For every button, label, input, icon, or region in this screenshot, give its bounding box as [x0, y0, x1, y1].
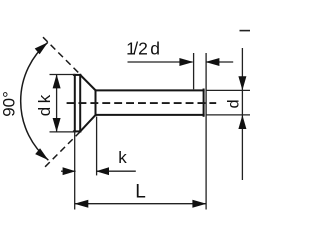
d arrow up [238, 115, 246, 129]
k ext line right [96, 117, 98, 176]
wire shank top [96, 89, 204, 91]
half-d dim line right tail [206, 61, 233, 63]
L arrow left-pointing [74, 200, 88, 208]
90 degree arc [21, 42, 49, 160]
wire cone bottom [80, 115, 95, 131]
d ext line top [207, 89, 251, 91]
dk arrow up [53, 74, 61, 88]
half-d dim line left tail [128, 61, 193, 63]
d dimension right [207, 48, 251, 180]
k dim line right tail [96, 170, 136, 172]
dk dim line [56, 75, 58, 132]
arc arrow top [35, 42, 48, 54]
half-d arrow left-pointing [205, 58, 219, 66]
wire shank right end [203, 90, 205, 116]
k dim line left tail [61, 170, 76, 172]
d ext line bottom [207, 114, 251, 116]
svg-text:d: d [226, 99, 243, 108]
k arrow left-pointing [96, 167, 109, 175]
construction dashed line bottom (cone extended) [42, 132, 80, 170]
L arrow right-pointing [192, 200, 206, 208]
wire cone-shank junction [95, 90, 97, 115]
d dim line [241, 48, 243, 180]
svg-text:90°: 90° [0, 91, 19, 117]
1/2 d dimension [128, 53, 234, 210]
dk ext line bottom [50, 131, 76, 133]
k dimension [61, 117, 136, 210]
svg-text:k: k [118, 148, 127, 167]
construction dashed line top (cone extended) [43, 37, 80, 74]
k arrow right-pointing [63, 167, 76, 175]
wire head face [74, 75, 76, 131]
dk arrow down [53, 118, 61, 132]
wire cone top [80, 75, 95, 90]
d arrow down [238, 76, 246, 90]
centerline [67, 102, 217, 104]
arc arrow bottom [35, 148, 48, 160]
L dim line [75, 203, 207, 205]
wire head top edge [74, 74, 80, 76]
wire top-right stray line [240, 30, 251, 32]
dk ext line top [50, 74, 76, 76]
screw outline [74, 75, 204, 131]
dk dimension [50, 75, 76, 132]
half-d / L ext line right [205, 53, 207, 210]
svg-text:1/2 d: 1/2 d [126, 39, 160, 59]
half-d ext line left [193, 53, 195, 89]
wire head bottom edge [74, 130, 80, 132]
left ext line (head face down) [74, 132, 76, 210]
wire shank bottom [96, 114, 204, 116]
half-d arrow right-pointing [179, 58, 193, 66]
wire slot line [79, 75, 81, 131]
svg-text:L: L [135, 181, 146, 202]
